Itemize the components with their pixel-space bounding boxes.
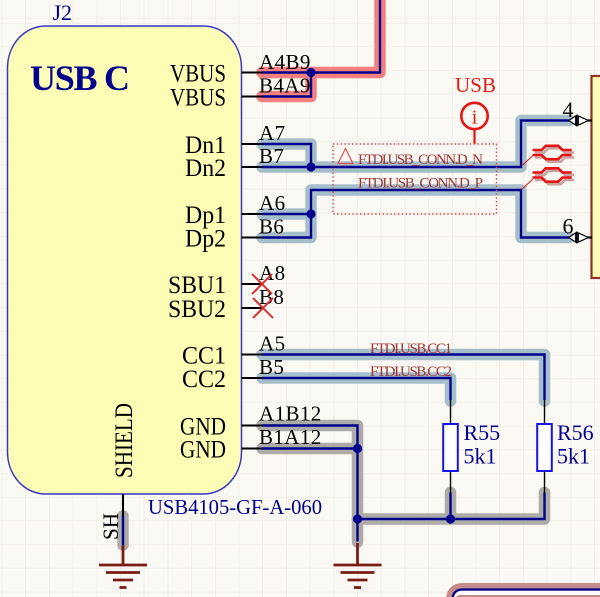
svg-text:B1A12: B1A12	[259, 425, 322, 449]
svg-text:A6: A6	[259, 191, 285, 215]
wire glow CC2 net	[262, 378, 451, 401]
pin 6 stub	[588, 236, 592, 238]
svg-text:B4A9: B4A9	[259, 74, 311, 98]
ground symbol under SHIELD	[99, 545, 147, 588]
svg-text:USB: USB	[455, 73, 496, 97]
resistor R56	[537, 400, 552, 493]
bottom component glow	[452, 589, 600, 597]
wire glow GND net	[123, 426, 545, 546]
pin 4 stub	[588, 119, 592, 121]
pin lines of J2	[123, 73, 263, 517]
svg-text:A4B9: A4B9	[259, 50, 311, 74]
bottom component border	[453, 590, 600, 597]
svg-text:FTDI.USB.CC2: FTDI.USB.CC2	[370, 364, 452, 380]
junction at GND bus left	[353, 514, 362, 523]
svg-text:Dp2: Dp2	[185, 226, 226, 253]
svg-text:VBUS: VBUS	[170, 61, 226, 88]
svg-text:CC2: CC2	[182, 366, 226, 393]
svg-text:J2: J2	[53, 0, 73, 25]
parameter set i circle	[461, 103, 487, 144]
no-ERC cross on SBU1	[252, 274, 272, 294]
wire glow VBUS net	[262, 0, 380, 97]
bottom component interior	[454, 591, 600, 597]
junction at D_N	[306, 162, 315, 171]
svg-text:B6: B6	[259, 215, 284, 239]
differential pair directive D_P shadow	[535, 171, 574, 184]
svg-text:R55: R55	[464, 420, 501, 445]
ground symbol under GND bus	[334, 543, 382, 588]
pin 4 arrows	[569, 115, 589, 127]
directive triangle	[338, 149, 353, 164]
pin 6 arrows	[569, 232, 589, 244]
svg-text:SBU1: SBU1	[168, 272, 226, 299]
no-ERC cross on SBU2	[253, 298, 273, 318]
bottom component inner glow	[460, 595, 600, 597]
svg-text:SH: SH	[98, 513, 123, 540]
leader line D_P	[522, 179, 533, 189]
svg-text:SHIELD: SHIELD	[111, 403, 138, 478]
wire VBUS navy	[262, 0, 380, 97]
svg-text:FTDI.USB.CC1: FTDI.USB.CC1	[370, 341, 452, 357]
svg-text:VBUS: VBUS	[170, 85, 226, 112]
svg-text:B7: B7	[259, 144, 284, 168]
svg-text:USB C: USB C	[30, 58, 130, 98]
svg-text:R56: R56	[557, 420, 594, 445]
svg-text:B5: B5	[259, 355, 284, 379]
svg-text:SBU2: SBU2	[168, 296, 226, 323]
svg-text:A5: A5	[259, 332, 285, 356]
right component body	[592, 76, 600, 278]
svg-text:GND: GND	[180, 437, 226, 464]
wire D_N navy	[262, 121, 569, 168]
svg-text:i: i	[472, 107, 478, 129]
svg-text:A8: A8	[259, 261, 285, 285]
svg-text:Dn2: Dn2	[185, 155, 226, 182]
connector J2 body	[8, 26, 242, 494]
resistor R55	[443, 400, 458, 493]
svg-text:5k1: 5k1	[557, 444, 590, 469]
differential pair directive D_N	[533, 146, 572, 159]
svg-text:A7: A7	[259, 121, 285, 145]
differential pair directive D_N shadow	[535, 148, 574, 161]
wire D_P navy	[262, 190, 569, 238]
differential pair directive D_P	[533, 168, 572, 181]
junction at GND bus R55	[446, 514, 455, 523]
wire CC2 navy	[262, 378, 451, 400]
junction at D_P	[306, 209, 315, 218]
leader line D_N	[522, 156, 533, 166]
svg-text:FTDI.USB_CONN.D_P: FTDI.USB_CONN.D_P	[358, 176, 483, 192]
junction at GND pins	[353, 444, 362, 453]
svg-text:USB4105-GF-A-060: USB4105-GF-A-060	[148, 495, 322, 519]
wire GND navy	[123, 426, 545, 546]
svg-text:A1B12: A1B12	[259, 402, 322, 426]
junction at VBUS	[306, 68, 315, 77]
blanket dotted rectangle	[333, 144, 497, 214]
wire CC1 navy	[262, 355, 545, 401]
svg-text:5k1: 5k1	[464, 444, 497, 469]
wire glow CC1 net	[262, 355, 545, 402]
wire glow D_N net	[262, 121, 569, 168]
svg-text:B8: B8	[259, 285, 284, 309]
wire glow D_P net	[262, 190, 569, 238]
svg-text:FTDI.USB_CONN.D_N: FTDI.USB_CONN.D_N	[358, 152, 483, 168]
